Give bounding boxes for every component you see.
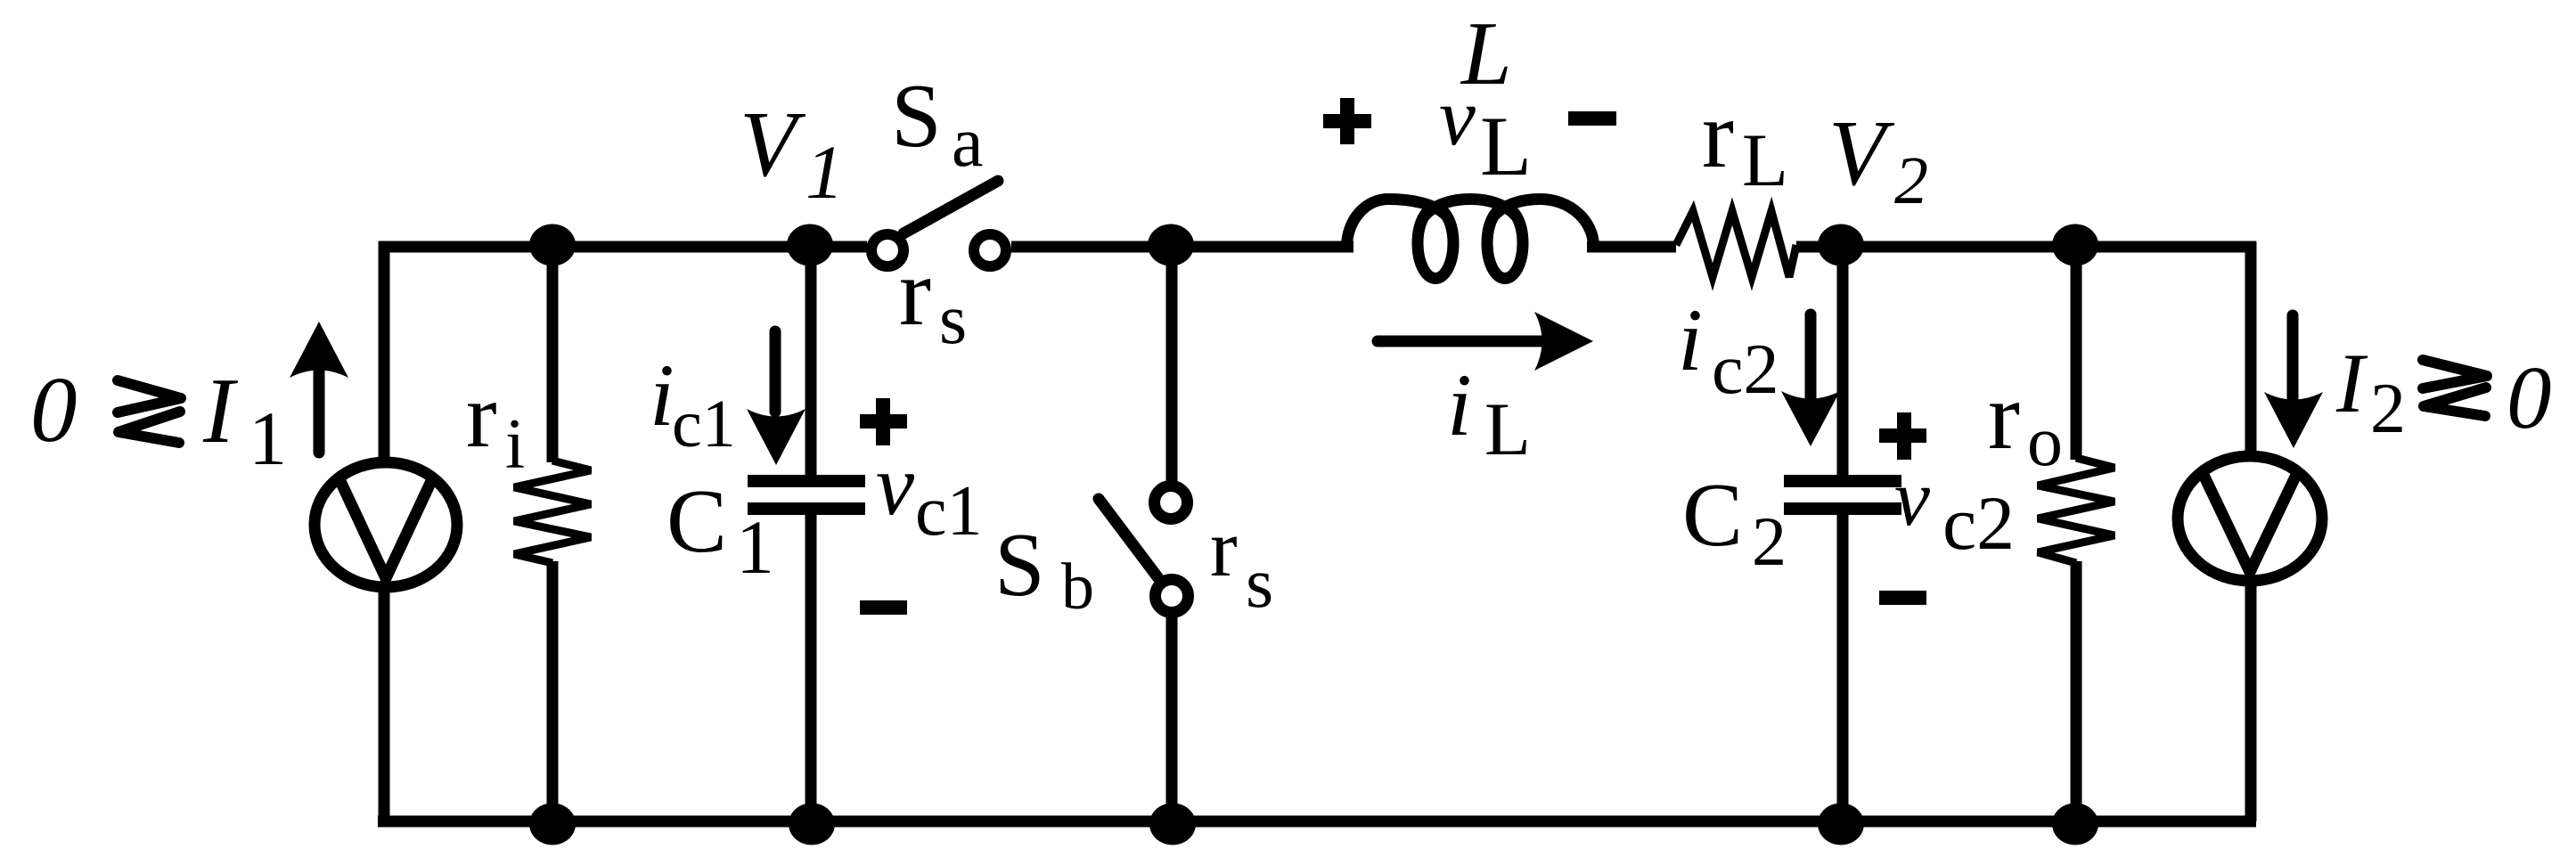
svg-text:1: 1 <box>736 504 774 590</box>
svg-text:i: i <box>650 346 675 445</box>
svg-text:i: i <box>1678 290 1703 389</box>
svg-text:2: 2 <box>2370 370 2406 448</box>
svg-text:1: 1 <box>806 129 844 215</box>
svg-text:a: a <box>952 103 984 182</box>
svg-text:o: o <box>2027 403 2063 481</box>
svg-text:s: s <box>1246 544 1273 623</box>
svg-text:v: v <box>876 437 915 533</box>
svg-text:r: r <box>899 240 931 346</box>
svg-text:v: v <box>1894 454 1930 543</box>
svg-text:0: 0 <box>2506 347 2552 447</box>
svg-text:L: L <box>1742 118 1788 202</box>
svg-text:i: i <box>1447 355 1472 454</box>
svg-text:i: i <box>505 405 525 484</box>
svg-text:c1: c1 <box>672 387 736 461</box>
svg-text:b: b <box>1061 551 1094 624</box>
svg-text:2: 2 <box>1894 143 1928 218</box>
svg-text:S: S <box>994 515 1045 616</box>
svg-text:L: L <box>1484 388 1531 471</box>
svg-text:I: I <box>202 358 239 462</box>
svg-text:0: 0 <box>30 357 78 461</box>
svg-text:c1: c1 <box>915 472 983 551</box>
svg-text:r: r <box>1702 82 1734 188</box>
svg-text:V: V <box>1828 101 1895 205</box>
svg-text:I: I <box>2335 336 2368 430</box>
svg-text:S: S <box>891 66 942 167</box>
svg-text:v: v <box>1439 71 1476 162</box>
svg-text:c2: c2 <box>1942 480 2015 566</box>
svg-text:2: 2 <box>1752 502 1787 580</box>
svg-text:1: 1 <box>249 396 287 481</box>
svg-text:c2: c2 <box>1712 330 1779 409</box>
svg-text:L: L <box>1480 99 1532 193</box>
svg-text:C: C <box>666 471 727 572</box>
svg-text:r: r <box>466 364 497 467</box>
svg-text:r: r <box>1210 502 1238 593</box>
svg-text:C: C <box>1682 465 1743 566</box>
svg-text:V: V <box>740 92 806 196</box>
svg-text:s: s <box>939 281 967 359</box>
svg-text:r: r <box>1988 363 2020 469</box>
